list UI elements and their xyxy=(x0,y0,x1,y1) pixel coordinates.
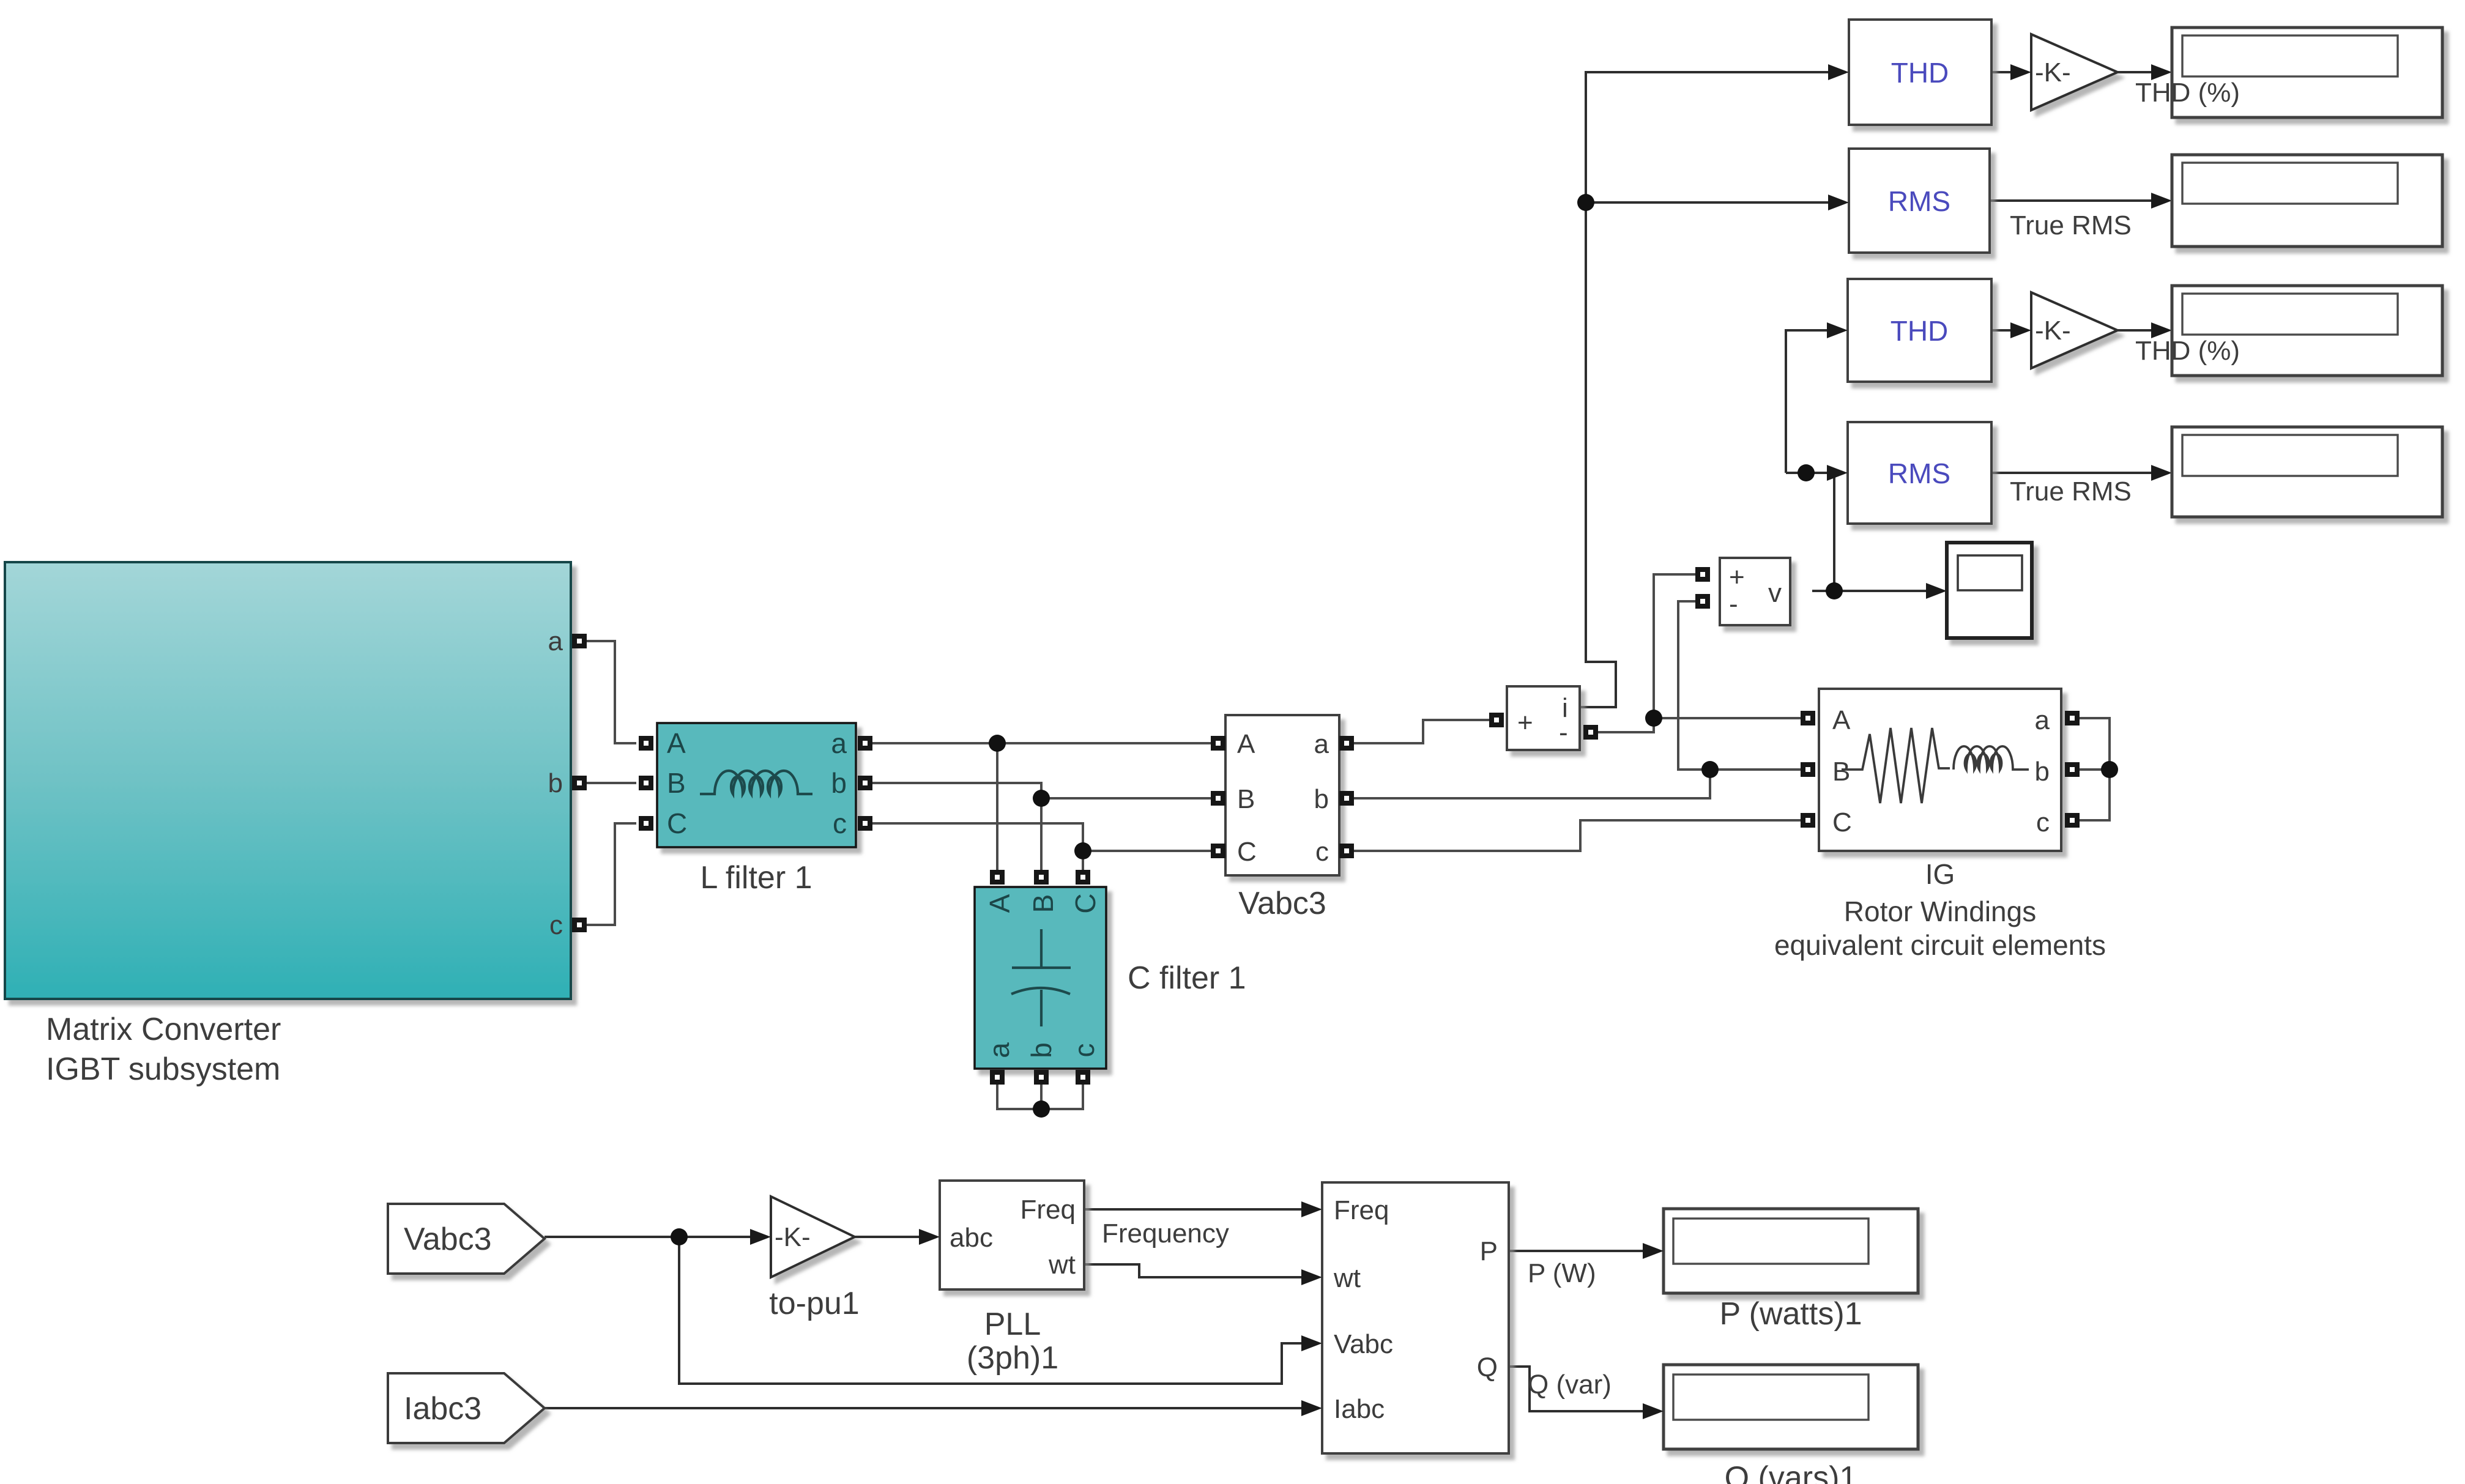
svg-text:b: b xyxy=(2035,757,2050,787)
block RMS2 xyxy=(1848,422,1991,524)
svg-text:THD: THD xyxy=(1891,315,1949,347)
svg-text:-K-: -K- xyxy=(2035,58,2071,87)
svg-text:c: c xyxy=(833,807,847,839)
svg-text:Freq: Freq xyxy=(1021,1195,1076,1225)
port C filter a xyxy=(990,1070,1005,1085)
svg-text:C: C xyxy=(667,807,687,839)
block RMS1 xyxy=(1849,149,1990,253)
svg-text:IG: IG xyxy=(1925,858,1955,890)
wire Vabc3 b east then north xyxy=(1354,770,1710,798)
svg-text:C: C xyxy=(1237,837,1257,867)
arrowhead into power Vabc xyxy=(1301,1335,1322,1351)
port Matrix a xyxy=(572,634,587,648)
port Vabc3 A xyxy=(1211,736,1225,751)
port L filter c xyxy=(858,816,872,831)
arrowhead into THD2 xyxy=(1827,322,1848,338)
svg-text:+: + xyxy=(1517,708,1533,738)
junction IG abc short xyxy=(2101,761,2118,778)
svg-text:B: B xyxy=(667,767,686,799)
svg-text:C: C xyxy=(1069,893,1101,913)
svg-text:Vabc3: Vabc3 xyxy=(1238,886,1326,921)
svg-text:B: B xyxy=(1237,784,1255,814)
junction phase A / C-filter branch xyxy=(989,735,1006,752)
arrowhead into RMS1 xyxy=(1828,195,1849,210)
svg-text:Matrix Converter: Matrix Converter xyxy=(46,1012,281,1047)
wire Vabc3 a to current measurement + xyxy=(1354,720,1489,743)
svg-text:abc: abc xyxy=(950,1223,993,1253)
junction v to THD2/RMS2 split xyxy=(1798,464,1815,481)
wire RMS2 to display4 xyxy=(1991,472,2152,474)
svg-text:c: c xyxy=(1315,837,1329,867)
wire IG a-c shorting link xyxy=(2080,718,2110,820)
svg-text:a: a xyxy=(548,626,563,656)
wire gain2 to display3 xyxy=(2117,329,2152,332)
block C filter 1 xyxy=(975,887,1106,1069)
block display P xyxy=(1664,1209,1918,1293)
svg-text:A: A xyxy=(667,727,686,759)
block Vabc3 three-phase measurement xyxy=(1225,715,1339,875)
svg-text:-K-: -K- xyxy=(775,1222,811,1252)
wire branch phase A down to C filter A xyxy=(996,743,998,870)
svg-text:P: P xyxy=(1480,1236,1498,1266)
port voltage measurement + xyxy=(1695,567,1710,582)
svg-text:Vabc: Vabc xyxy=(1334,1329,1393,1359)
label Matrix Converter IGBT subsystem xyxy=(46,1012,281,1087)
block IG rotor windings xyxy=(1819,689,2061,851)
gain -K- to-pu1 xyxy=(771,1196,855,1277)
junction i signal split THD/RMS xyxy=(1577,194,1594,211)
arrowhead into display1 xyxy=(2151,64,2172,80)
arrowhead into gain1 xyxy=(2010,64,2031,80)
svg-text:b: b xyxy=(1314,784,1329,814)
block display3 THD xyxy=(2172,286,2442,376)
wire Matrix b to L filter B xyxy=(587,782,636,784)
port Vabc3 b xyxy=(1339,791,1354,806)
block THD2 xyxy=(1848,279,1991,382)
svg-text:Q (var): Q (var) xyxy=(1528,1370,1612,1400)
block display2 RMS xyxy=(2172,155,2442,247)
wire L filter b east then south xyxy=(872,783,1041,798)
wire phase B to IG B xyxy=(1710,768,1801,771)
block scope xyxy=(1947,543,2032,638)
junction v signal split xyxy=(1826,582,1843,599)
port C filter B xyxy=(1034,870,1049,885)
wire power P to display xyxy=(1509,1250,1644,1252)
wire Matrix c to L filter C xyxy=(587,823,636,925)
arrowhead into display Q xyxy=(1643,1403,1664,1419)
port Matrix b xyxy=(572,776,587,790)
junction phase B / C-filter branch xyxy=(1033,790,1050,807)
port current measurement + xyxy=(1489,713,1504,727)
arrowhead into display4 xyxy=(2151,465,2172,481)
gain -K- top 2 xyxy=(2031,292,2117,368)
port C filter C xyxy=(1076,870,1090,885)
arrowhead into scope xyxy=(1926,583,1947,599)
label PLL (3ph)1 xyxy=(967,1307,1058,1376)
svg-text:+: + xyxy=(1729,562,1745,592)
wire branch phase B down to C filter B xyxy=(1040,798,1043,870)
junction phase C / C-filter branch xyxy=(1074,842,1091,859)
inductor symbol xyxy=(700,771,812,794)
svg-text:B: B xyxy=(1832,757,1850,787)
svg-text:PLL: PLL xyxy=(984,1307,1041,1342)
svg-text:-: - xyxy=(1559,718,1568,748)
wire PLL wt to power block wt xyxy=(1084,1264,1303,1277)
svg-text:True RMS: True RMS xyxy=(2010,477,2132,506)
wire L filter a to Vabc3 A xyxy=(872,742,1211,744)
wire RMS1 to display2 xyxy=(1990,199,2152,202)
gain -K- top 1 xyxy=(2031,34,2117,110)
port IG C xyxy=(1801,813,1815,828)
port L filter B xyxy=(639,776,653,790)
wire Iabc3 tag to power block Iabc xyxy=(545,1407,1303,1409)
block display4 RMS xyxy=(2172,427,2442,517)
port IG c xyxy=(2065,813,2080,828)
svg-text:RMS: RMS xyxy=(1888,185,1950,217)
wire power Q to display xyxy=(1509,1367,1644,1411)
arrowhead into display3 xyxy=(2151,322,2172,338)
port C filter A xyxy=(990,870,1005,885)
port Vabc3 C xyxy=(1211,844,1225,858)
arrowhead into PLL abc xyxy=(919,1229,940,1245)
block L filter 1 xyxy=(657,723,856,847)
block current measurement i xyxy=(1507,686,1580,750)
wire gain1 to display1 xyxy=(2117,71,2152,73)
wire PLL Freq to power block Freq xyxy=(1084,1208,1303,1211)
wire L filter c east then south xyxy=(872,823,1083,851)
svg-text:Iabc: Iabc xyxy=(1334,1394,1385,1424)
svg-text:b: b xyxy=(548,768,563,798)
svg-text:wt: wt xyxy=(1333,1263,1361,1293)
port L filter b xyxy=(858,776,872,790)
svg-text:c: c xyxy=(1068,1044,1100,1058)
svg-text:wt: wt xyxy=(1048,1250,1076,1280)
wire Vabc3 tap to power block Vabc xyxy=(679,1237,1303,1384)
capacitor symbol xyxy=(1011,929,1071,1026)
svg-text:B: B xyxy=(1027,894,1059,913)
svg-text:THD: THD xyxy=(1891,57,1949,89)
wire current measurement - east then north xyxy=(1598,718,1654,732)
port C filter b xyxy=(1034,1070,1049,1085)
svg-text:Frequency: Frequency xyxy=(1102,1219,1229,1248)
wire branch phase C down to C filter C xyxy=(1082,851,1084,870)
svg-text:-K-: -K- xyxy=(2035,316,2071,346)
wire i measurement up to THD1 xyxy=(1580,72,1829,707)
svg-text:THD (%): THD (%) xyxy=(2135,336,2240,366)
wire IG b shorting link xyxy=(2080,768,2110,771)
svg-text:c: c xyxy=(549,910,563,940)
svg-text:P (W): P (W) xyxy=(1528,1258,1596,1288)
svg-text:RMS: RMS xyxy=(1888,458,1950,489)
svg-text:b: b xyxy=(1025,1042,1057,1058)
block display1 THD xyxy=(2172,28,2442,117)
label IG Rotor Windings xyxy=(1774,858,2106,961)
port IG A xyxy=(1801,711,1815,725)
input tag Iabc3 xyxy=(388,1373,545,1443)
port L filter C xyxy=(639,816,653,831)
svg-text:Rotor Windings: Rotor Windings xyxy=(1844,896,2036,927)
wire phase A to IG A xyxy=(1654,717,1801,719)
port IG b xyxy=(2065,762,2080,777)
junction Vabc3 signal split xyxy=(671,1228,688,1245)
wire phase A tap to voltage measurement + xyxy=(1654,574,1695,718)
wire gain to PLL abc xyxy=(855,1236,920,1238)
wire THD2 to gain2 xyxy=(1991,329,2012,332)
port C filter c xyxy=(1076,1070,1090,1085)
block PLL (3ph)1 xyxy=(940,1181,1084,1289)
svg-text:IGBT subsystem: IGBT subsystem xyxy=(46,1052,280,1087)
block THD1 xyxy=(1849,20,1991,125)
wire v up to RMS2 level xyxy=(1833,473,1835,591)
svg-text:c: c xyxy=(2036,807,2050,837)
resistor symbol xyxy=(1842,728,1950,803)
wire phase B tap to voltage measurement - xyxy=(1678,601,1710,770)
port Vabc3 c xyxy=(1339,844,1354,858)
subsystem Matrix Converter IGBT xyxy=(5,562,571,999)
input tag Vabc3 xyxy=(388,1204,545,1274)
svg-text:P (watts)1: P (watts)1 xyxy=(1719,1296,1862,1332)
wire C filter star connection middle xyxy=(1040,1085,1043,1109)
arrowhead into THD1 xyxy=(1828,64,1849,80)
arrowhead into display2 xyxy=(2151,193,2172,209)
junction phase B / V- tap xyxy=(1701,761,1719,778)
svg-text:A: A xyxy=(1832,705,1851,735)
svg-text:Q (vars)1: Q (vars)1 xyxy=(1725,1460,1857,1484)
port Vabc3 a xyxy=(1339,736,1354,751)
wire up into THD2 xyxy=(1786,330,1828,473)
wire phase C to Vabc3 C xyxy=(1083,850,1211,852)
svg-text:A: A xyxy=(984,894,1016,913)
svg-text:a: a xyxy=(983,1042,1015,1058)
port L filter A xyxy=(639,736,653,751)
svg-text:a: a xyxy=(1314,729,1329,759)
wire into RMS2 xyxy=(1786,472,1828,474)
port IG a xyxy=(2065,711,2080,725)
svg-text:v: v xyxy=(1768,578,1782,608)
arrowhead into display P xyxy=(1643,1243,1664,1259)
block 3-phase instantaneous power xyxy=(1322,1182,1509,1453)
port Vabc3 B xyxy=(1211,791,1225,806)
arrowhead into gain to-pu1 xyxy=(750,1229,771,1245)
junction C filter star point xyxy=(1033,1100,1050,1118)
port L filter a xyxy=(858,736,872,751)
svg-text:Q: Q xyxy=(1477,1352,1498,1382)
svg-text:Vabc3: Vabc3 xyxy=(404,1222,492,1257)
svg-text:b: b xyxy=(831,767,847,799)
svg-text:C filter 1: C filter 1 xyxy=(1128,960,1246,996)
svg-text:to-pu1: to-pu1 xyxy=(769,1286,859,1321)
svg-text:-: - xyxy=(1729,589,1738,619)
port Matrix c xyxy=(572,918,587,932)
wire i to RMS1 xyxy=(1586,201,1829,204)
wire Matrix a to L filter A xyxy=(587,641,636,743)
svg-text:(3ph)1: (3ph)1 xyxy=(967,1340,1058,1376)
svg-text:True RMS: True RMS xyxy=(2010,210,2132,240)
wire phase B to Vabc3 B xyxy=(1041,797,1211,800)
port voltage measurement - xyxy=(1695,594,1710,609)
wire THD1 to gain1 xyxy=(1991,71,2012,73)
arrowhead into gain2 xyxy=(2010,322,2031,338)
arrowhead into power Iabc xyxy=(1301,1400,1322,1416)
arrowhead into power wt xyxy=(1301,1269,1322,1285)
svg-text:a: a xyxy=(831,727,847,759)
wire Vabc3 c to IG C xyxy=(1354,820,1801,851)
arrowhead into RMS2 xyxy=(1827,465,1848,481)
junction phase A / V+ tap xyxy=(1645,710,1662,727)
arrowhead into power Freq xyxy=(1301,1201,1322,1217)
svg-text:Freq: Freq xyxy=(1334,1195,1389,1225)
block display Q xyxy=(1664,1365,1918,1449)
svg-text:A: A xyxy=(1237,729,1255,759)
svg-text:THD (%): THD (%) xyxy=(2135,78,2240,108)
svg-text:C: C xyxy=(1832,807,1852,837)
svg-text:L filter 1: L filter 1 xyxy=(700,860,812,896)
svg-text:Iabc3: Iabc3 xyxy=(404,1391,481,1426)
svg-text:a: a xyxy=(2035,705,2050,735)
wire v measurement to scope xyxy=(1812,590,1927,592)
wire Vabc3 tag to gain to-pu1 xyxy=(545,1236,750,1238)
svg-text:equivalent circuit elements: equivalent circuit elements xyxy=(1774,929,2106,961)
port current measurement - xyxy=(1583,725,1598,740)
inductor symbol xyxy=(1954,746,2029,770)
port IG B xyxy=(1801,762,1815,777)
wire C filter star connection outer xyxy=(997,1085,1083,1109)
block voltage measurement v xyxy=(1720,558,1790,625)
